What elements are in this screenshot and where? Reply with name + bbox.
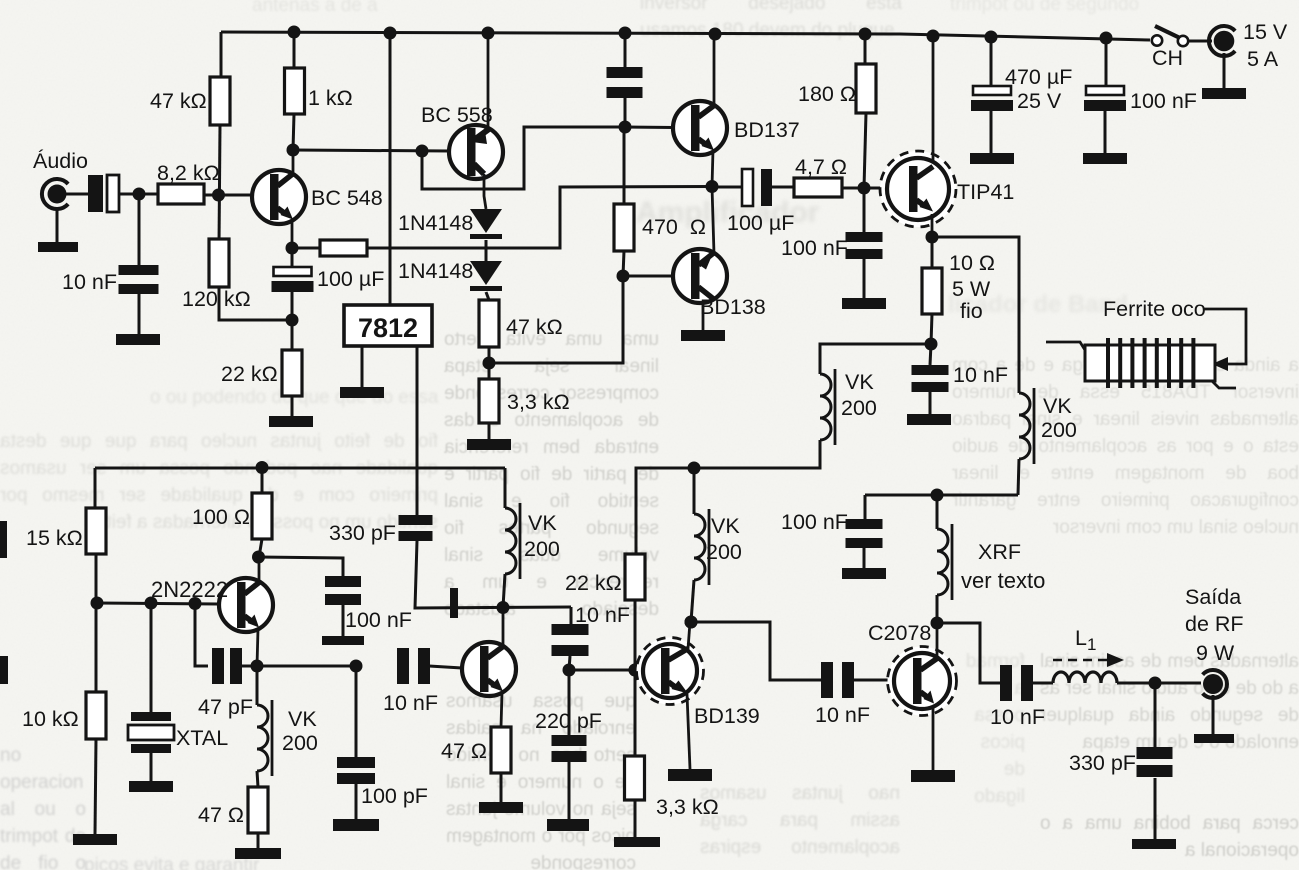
- svg-text:220 pF: 220 pF: [535, 709, 602, 733]
- svg-text:10 kΩ: 10 kΩ: [22, 707, 79, 731]
- svg-text:2N2222: 2N2222: [151, 577, 228, 602]
- svg-text:470 µF: 470 µF: [1005, 65, 1072, 89]
- svg-text:22 kΩ: 22 kΩ: [565, 571, 622, 595]
- svg-text:fio: fio: [960, 299, 983, 323]
- svg-text:47 Ω: 47 Ω: [441, 739, 487, 763]
- svg-text:100 nF: 100 nF: [781, 236, 848, 260]
- svg-text:L: L: [1075, 626, 1087, 650]
- svg-text:100 nF: 100 nF: [345, 608, 412, 632]
- svg-text:200: 200: [841, 396, 877, 420]
- svg-text:5 A: 5 A: [1247, 47, 1279, 71]
- svg-text:XTAL: XTAL: [176, 726, 228, 750]
- svg-text:100 µF: 100 µF: [727, 211, 794, 235]
- svg-text:C2078: C2078: [868, 621, 931, 645]
- svg-text:100 Ω: 100 Ω: [192, 505, 250, 529]
- svg-text:200: 200: [282, 731, 318, 755]
- svg-text:15 kΩ: 15 kΩ: [26, 526, 83, 550]
- svg-text:VK: VK: [288, 707, 317, 731]
- svg-text:180 Ω: 180 Ω: [798, 82, 856, 106]
- svg-text:VK: VK: [528, 511, 557, 535]
- svg-text:47 Ω: 47 Ω: [198, 803, 244, 827]
- svg-text:1 kΩ: 1 kΩ: [308, 86, 353, 110]
- svg-text:100 nF: 100 nF: [781, 510, 848, 534]
- svg-text:47 kΩ: 47 kΩ: [150, 89, 207, 113]
- svg-text:Ferrite oco: Ferrite oco: [1103, 297, 1206, 321]
- svg-text:100 µF: 100 µF: [317, 267, 384, 291]
- svg-text:7812: 7812: [358, 313, 418, 343]
- svg-text:1N4148: 1N4148: [398, 211, 473, 235]
- svg-text:BD138: BD138: [700, 295, 766, 319]
- svg-text:10 Ω: 10 Ω: [949, 251, 995, 275]
- svg-text:330 pF: 330 pF: [329, 521, 396, 545]
- svg-text:10 nF: 10 nF: [815, 703, 870, 727]
- svg-text:10 nF: 10 nF: [575, 603, 630, 627]
- svg-text:Áudio: Áudio: [33, 148, 88, 173]
- svg-text:VK: VK: [711, 514, 740, 538]
- svg-text:10 nF: 10 nF: [62, 270, 117, 294]
- svg-text:1N4148: 1N4148: [398, 259, 473, 283]
- svg-text:470 Ω: 470 Ω: [642, 215, 706, 239]
- svg-text:10 nF: 10 nF: [953, 363, 1008, 387]
- svg-text:1: 1: [1087, 635, 1096, 654]
- svg-text:9 W: 9 W: [1196, 641, 1235, 665]
- svg-text:VK: VK: [845, 370, 874, 394]
- svg-text:100 pF: 100 pF: [361, 784, 428, 808]
- svg-text:TIP41: TIP41: [957, 180, 1014, 204]
- svg-text:25 V: 25 V: [1017, 89, 1062, 113]
- svg-text:3,3 kΩ: 3,3 kΩ: [507, 390, 570, 414]
- svg-text:120 kΩ: 120 kΩ: [182, 287, 251, 311]
- svg-text:100 nF: 100 nF: [1130, 89, 1197, 113]
- svg-text:15 V: 15 V: [1243, 20, 1288, 44]
- svg-text:200: 200: [524, 537, 560, 561]
- svg-text:200: 200: [1041, 418, 1077, 442]
- svg-text:XRF: XRF: [978, 540, 1021, 564]
- svg-text:de RF: de RF: [1185, 612, 1244, 636]
- svg-text:Saída: Saída: [1185, 585, 1241, 609]
- svg-text:BC 548: BC 548: [311, 186, 383, 210]
- svg-text:VK: VK: [1043, 394, 1072, 418]
- svg-text:ver texto: ver texto: [961, 568, 1045, 593]
- svg-text:10 nF: 10 nF: [383, 691, 438, 715]
- svg-text:8,2 kΩ: 8,2 kΩ: [157, 161, 220, 185]
- svg-text:CH: CH: [1152, 46, 1183, 70]
- svg-text:3,3 kΩ: 3,3 kΩ: [656, 795, 719, 819]
- svg-text:BC 558: BC 558: [421, 103, 493, 127]
- svg-text:BD137: BD137: [734, 118, 800, 142]
- svg-text:BD139: BD139: [694, 704, 760, 728]
- svg-text:330 pF: 330 pF: [1069, 751, 1136, 775]
- svg-text:47 pF: 47 pF: [198, 695, 253, 719]
- svg-text:200: 200: [706, 540, 742, 564]
- svg-text:5 W: 5 W: [952, 277, 991, 301]
- svg-text:4,7 Ω: 4,7 Ω: [795, 155, 847, 179]
- svg-text:22 kΩ: 22 kΩ: [221, 362, 278, 386]
- svg-text:47 kΩ: 47 kΩ: [506, 315, 563, 339]
- svg-text:10 nF: 10 nF: [990, 705, 1045, 729]
